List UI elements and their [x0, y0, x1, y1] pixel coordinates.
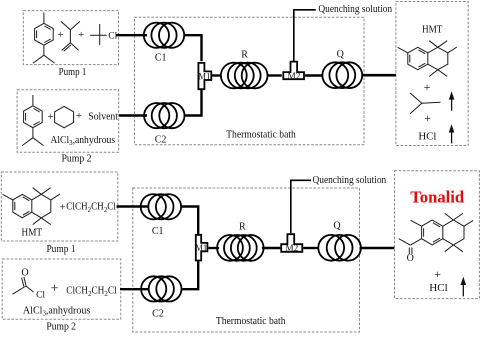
svg-text:Pump 1: Pump 1	[46, 244, 75, 255]
svg-text:+: +	[50, 282, 58, 297]
svg-text:AlCl3,anhydrous: AlCl3,anhydrous	[23, 304, 90, 317]
svg-text:HCl: HCl	[429, 282, 447, 294]
svg-text:Cl: Cl	[36, 290, 45, 300]
svg-text:O: O	[21, 268, 28, 279]
svg-text:C1: C1	[152, 226, 164, 237]
svg-text:Quenching solution: Quenching solution	[313, 174, 387, 186]
svg-text:C2: C2	[155, 135, 167, 146]
svg-text:Solvent: Solvent	[88, 111, 118, 122]
svg-text:Q: Q	[337, 49, 345, 60]
svg-text:Thermostatic bath: Thermostatic bath	[226, 129, 296, 140]
svg-text:O: O	[407, 253, 414, 264]
svg-text:+: +	[47, 111, 53, 123]
svg-text:+: +	[57, 29, 63, 41]
svg-text:M1: M1	[198, 73, 210, 83]
svg-text:Pump 2: Pump 2	[61, 154, 91, 165]
svg-text:+: +	[424, 80, 431, 94]
svg-text:M2: M2	[287, 72, 300, 82]
svg-text:M1: M1	[195, 244, 207, 254]
svg-text:Pump 1: Pump 1	[59, 67, 87, 78]
svg-text:+: +	[76, 110, 82, 122]
svg-text:Pump 2: Pump 2	[46, 322, 76, 333]
svg-text:Quenching solution: Quenching solution	[318, 3, 392, 15]
svg-text:+: +	[434, 267, 441, 281]
svg-text:C2: C2	[152, 309, 164, 320]
svg-text:Tonalid: Tonalid	[410, 188, 465, 207]
svg-text:R: R	[239, 222, 246, 233]
svg-text:AlCl3,anhydrous: AlCl3,anhydrous	[50, 135, 115, 147]
svg-text:+: +	[424, 111, 431, 125]
svg-text:R: R	[241, 49, 248, 60]
svg-text:M2: M2	[285, 244, 298, 254]
svg-text:ClCH2CH2Cl: ClCH2CH2Cl	[66, 202, 116, 214]
svg-text:HCl: HCl	[418, 131, 436, 143]
svg-text:C1: C1	[155, 52, 167, 63]
svg-text:+: +	[59, 201, 65, 213]
svg-text:ClCH2CH2Cl: ClCH2CH2Cl	[66, 286, 117, 298]
svg-text:HMT: HMT	[22, 228, 43, 239]
svg-text:+: +	[78, 29, 84, 41]
svg-text:Q: Q	[333, 220, 341, 231]
svg-text:Thermostatic bath: Thermostatic bath	[216, 316, 286, 327]
svg-text:HMT: HMT	[422, 25, 443, 36]
